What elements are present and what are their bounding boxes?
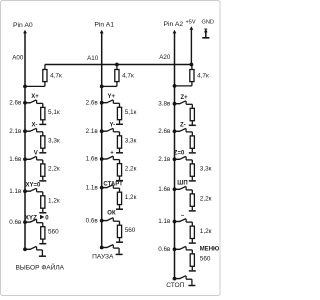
svg-text:Z-: Z- [180,123,186,129]
wire R3 bottom [191,82,193,86]
wire R7 to ground [42,208,44,212]
wire R11 to ground [119,176,121,180]
svg-text:560: 560 [125,227,136,234]
wire +5V rail [190,29,192,65]
svg-text:5,1к: 5,1к [125,109,137,116]
wire ShP to R17 [186,189,192,191]
ground symbol GND (top right) [202,29,209,38]
svg-text:Y+: Y+ [108,94,116,100]
svg-text:ПАУЗА: ПАУЗА [92,253,114,260]
switch Z+ [175,101,187,105]
svg-text:X+: X+ [31,94,39,100]
ground (R12) [116,208,123,210]
wire Z- to R15 [186,131,192,133]
ground (R17) [189,210,196,212]
wire Z+ to R14 [186,103,192,105]
wire XY=0 to R7 [37,191,43,193]
svg-text:2,2к: 2,2к [48,166,60,173]
svg-text:+5V: +5V [186,19,196,25]
node Z+ junction [173,102,177,106]
svg-text:2,2к: 2,2к [125,165,137,172]
svg-text:0.6в: 0.6в [158,246,171,253]
label XYZ►0 [25,215,50,222]
svg-text:+: + [110,150,114,156]
wire XYZ-0 to R8 [37,222,43,224]
switch VYBOR FAILA [25,246,37,250]
svg-text:ШП: ШП [177,181,187,187]
svg-text:ВЫБОР ФАЙЛА: ВЫБОР ФАЙЛА [16,263,65,272]
ground (R9) [116,123,123,125]
svg-text:560: 560 [48,228,59,235]
wire R5 to ground [42,148,44,152]
resistor R5 3,3к [41,136,45,148]
wire STOP to ground [186,278,192,280]
ground (R14) [189,124,196,126]
wire +5V distribution line [45,64,192,66]
svg-text:МЕНЮ: МЕНЮ [200,247,220,253]
svg-text:СТОП: СТОП [166,282,184,289]
resistor R13 560 [117,225,121,237]
node V junction [23,157,27,161]
ground (R10) [116,152,123,154]
ground (R5) [39,152,46,154]
svg-text:0.6в: 0.6в [9,219,22,226]
svg-text:4,7к: 4,7к [122,72,134,79]
svg-text:1,2к: 1,2к [48,198,60,205]
svg-text:1,2к: 1,2к [125,194,137,201]
wire R13 to ground [119,238,121,242]
wire R17 to ground [191,206,193,210]
svg-text:2.1в: 2.1в [86,128,99,135]
wire minus to R18 [186,221,192,223]
resistor R2 4,7k (A1 pull-up) [115,70,119,82]
svg-text:4,7к: 4,7к [50,72,62,79]
resistor R10 3,3к [117,136,121,148]
pin A1 arrow [100,30,104,34]
node XY=0 junction [23,189,27,193]
wire R6 to ground [42,176,44,180]
wire R1 bottom [44,82,46,87]
node MENU junction [173,247,177,251]
resistor R15 [190,136,194,148]
svg-text:2.1в: 2.1в [9,128,22,135]
node + junction [100,157,104,161]
svg-text:A20: A20 [159,54,171,61]
node Z=0 junction [173,157,177,161]
pin A0 arrow [23,30,27,34]
node Y- junction [100,129,104,133]
switch + [102,156,114,160]
node X+ junction [23,101,27,105]
switch XYZ-0 [25,219,37,223]
wire Y- to R10 [113,131,119,133]
ground (R16) [189,180,196,182]
svg-text:1.6в: 1.6в [9,156,22,163]
wire R2 top [116,65,118,70]
ground (R11) [116,180,123,182]
node Y+ junction [100,101,104,105]
wire R15 to ground [191,148,193,152]
wire R18 to ground [191,239,193,243]
svg-text:2.6в: 2.6в [9,100,22,107]
svg-text:0.6в: 0.6в [86,217,99,224]
svg-text:3,3к: 3,3к [48,138,60,145]
wire START to R12 [113,187,119,189]
svg-text:2.6в: 2.6в [158,128,171,135]
switch STOP [175,276,187,280]
switch START [102,185,114,189]
resistor R3 4,7k (A2 pull-up) [190,70,194,82]
wire R4 to ground [42,120,44,124]
svg-text:5,1к: 5,1к [48,109,60,116]
node PAUZA junction [100,246,104,250]
ground (R4) [39,123,46,125]
svg-text:Z+: Z+ [181,95,189,101]
wire X+ to R4 [37,102,43,104]
svg-text:1.1в: 1.1в [86,184,99,191]
wire rail A1 [101,33,103,248]
resistor R16 3,3к [190,164,194,176]
node STOP junction [173,277,177,281]
+5V arrow [190,26,194,30]
switch ShP [175,186,187,190]
svg-text:Pin A0: Pin A0 [13,22,33,29]
svg-text:0: 0 [45,216,49,222]
ground (PAUZA) [116,253,123,255]
wire R14 to ground [191,121,193,125]
resistor R9 5,1к [117,107,121,119]
node ShP junction [173,187,177,191]
resistor R7 1,2к [41,196,45,208]
page border frame [1,1,221,296]
switch Y+ [102,100,114,104]
ground (R8) [39,243,46,245]
resistor R11 2,2к [117,164,121,176]
resistor R1 4,7k (A0 pull-up) [43,70,47,82]
svg-text:GND: GND [202,19,214,25]
node A0/R1 junction [23,85,27,89]
node minus junction [173,220,177,224]
resistor R18 1,2к [190,226,194,238]
node X- junction [23,129,27,133]
svg-text:Pin A2: Pin A2 [164,21,184,28]
svg-text:Z=0: Z=0 [174,151,185,157]
node OK junction [100,219,104,223]
switch OK [102,218,114,222]
wire R12 to ground [119,205,121,209]
wire R16 to ground [191,176,193,180]
resistor R14 [190,108,194,120]
svg-text:СТАРТ: СТАРТ [103,181,123,187]
switch Z- [175,128,187,132]
svg-text:A10: A10 [87,55,99,62]
switch Y- [102,128,114,132]
wire rail A0 [24,33,26,250]
wire R19 to ground [191,266,193,270]
resistor R4 5,1к [41,107,45,119]
wire Z=0 to R16 [186,159,192,161]
svg-text:2.6в: 2.6в [86,99,99,106]
svg-text:XY=0: XY=0 [26,183,42,189]
resistor R17 2,2к [190,194,194,206]
svg-text:Pin A1: Pin A1 [94,22,114,29]
svg-text:3,3к: 3,3к [200,166,212,173]
wire VYBOR FAILA to ground [37,249,43,251]
svg-text:Y-: Y- [110,123,116,129]
node VYBOR FAILA junction [23,247,27,251]
wire PAUZA to ground [113,247,119,249]
wire R9 to ground [119,120,121,124]
wire X- to R5 [37,131,43,133]
svg-text:1,2к: 1,2к [200,228,212,235]
svg-text:XYZ: XYZ [25,215,37,222]
switch MENU [175,246,187,250]
switch X- [25,128,37,132]
wire + to R11 [113,159,119,161]
svg-text:1.6в: 1.6в [86,156,99,163]
resistor R8 560 [41,227,45,239]
svg-text:560: 560 [200,256,211,263]
node A1/R2 junction [100,85,104,89]
resistor R19 560 [190,254,194,266]
svg-text:1.1в: 1.1в [9,188,22,195]
ground (STOP) [188,285,195,287]
wire OK to R13 [113,220,119,222]
svg-text:V: V [34,151,38,157]
switch minus [175,219,187,223]
svg-text:2.1в: 2.1в [158,156,171,163]
wire V to R6 [37,159,43,161]
svg-text:2,2к: 2,2к [200,196,212,203]
node +5V junction at rail [190,63,194,67]
node XYZ-0 junction [23,220,27,224]
pin A2 arrow [173,30,177,34]
svg-text:ОК: ОК [107,211,116,217]
svg-text:–: – [181,213,185,219]
ground (R13) [116,241,123,243]
ground (R18) [189,242,196,244]
node A2/R3 junction [173,84,177,88]
node +5V line / R2 junction [115,63,119,67]
switch PAUZA [102,245,114,249]
wire R10 to ground [119,148,121,152]
wire R8 to ground [42,239,44,243]
ground (R7) [39,212,46,214]
svg-text:1.6в: 1.6в [158,186,171,193]
svg-text:1.1в: 1.1в [158,218,171,225]
wire R2 bottom [116,82,118,87]
wire MENU to R19 [186,249,192,251]
wire Y+ to R9 [113,102,119,104]
switch V [25,156,37,160]
wire rail A2 [174,33,176,279]
svg-text:3.8в: 3.8в [158,100,171,107]
resistor R12 1,2к [117,192,121,204]
ground (VYBOR FAILA) [39,255,46,257]
node Z- junction [173,129,177,133]
switch Z=0 [175,156,187,160]
ground (R19) [189,270,196,272]
switch X+ [25,100,37,104]
wire R3 top [191,65,193,70]
ground (R6) [39,180,46,182]
svg-text:4,7к: 4,7к [197,72,209,79]
ground (R15) [189,152,196,154]
svg-text:X-: X- [32,123,38,129]
wire R1 top [44,65,46,70]
svg-text:3,3к: 3,3к [125,138,137,145]
node START junction [100,186,104,190]
resistor R6 2,2к [41,164,45,176]
svg-text:A00: A00 [12,54,24,61]
switch XY=0 [25,188,37,192]
